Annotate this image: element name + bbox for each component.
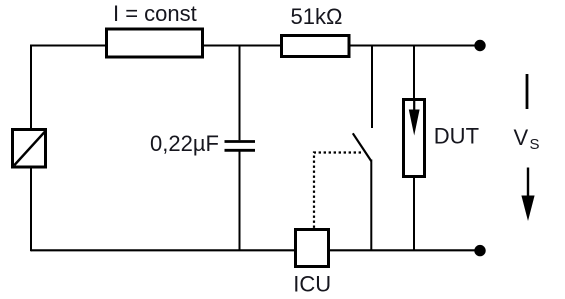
svg-text:I = const: I = const [113, 1, 197, 26]
wire left vertical [30, 45, 32, 252]
svg-text:0,22µF: 0,22µF [150, 131, 219, 156]
ICU control unit [293, 230, 331, 297]
converter symbol (box with diagonal) [13, 130, 46, 168]
svg-text:DUT: DUT [434, 124, 479, 149]
current source U1 I = const [107, 1, 203, 57]
control line dotted ICU to switch [314, 153, 361, 229]
svg-text:51kΩ: 51kΩ [291, 4, 343, 29]
terminal bottom right [474, 245, 485, 256]
switch S1 [353, 46, 372, 251]
wire bottom rail [31, 249, 480, 251]
resistor R1 51kOhm [282, 4, 350, 57]
DUT (device under test) [404, 46, 480, 251]
wire top rail [31, 45, 480, 47]
svg-text:S: S [530, 136, 540, 153]
svg-text:V: V [514, 125, 529, 150]
terminal top right [474, 40, 485, 51]
capacitor C1 0,22uF [150, 46, 255, 251]
voltage VS arrow [514, 74, 540, 221]
svg-text:ICU: ICU [293, 272, 331, 297]
